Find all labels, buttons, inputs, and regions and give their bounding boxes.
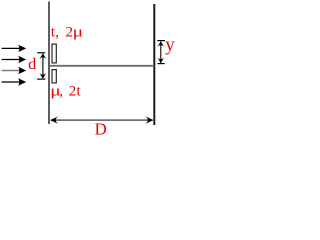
slit separation dimension arrow d — [37, 53, 46, 79]
screen — [153, 4, 155, 125]
svg-text:, 2t: , 2t — [59, 84, 81, 100]
glass slab S1 (top slit) — [52, 44, 56, 63]
incident ray arrow 3 (gray shaft) — [2, 67, 27, 74]
svg-text:t, 2: t, 2 — [51, 25, 73, 41]
slit-to-screen dimension arrow D — [50, 116, 153, 124]
label mu, 2t (bottom slab) — [50, 83, 81, 100]
incident ray arrow 4 — [2, 78, 27, 85]
incident ray arrow 1 — [2, 45, 27, 52]
slit plate (barrier) — [48, 2, 50, 125]
svg-text:y: y — [165, 35, 175, 56]
svg-text:μ: μ — [73, 24, 83, 40]
central axis — [50, 65, 154, 67]
svg-text:D: D — [95, 120, 107, 138]
label t, 2mu (top slab) — [51, 24, 83, 41]
svg-text:d: d — [28, 55, 36, 73]
glass slab S2 (bottom slit) — [52, 70, 56, 83]
incident ray arrow 2 — [2, 56, 27, 63]
fringe position dimension arrow y — [157, 41, 165, 64]
